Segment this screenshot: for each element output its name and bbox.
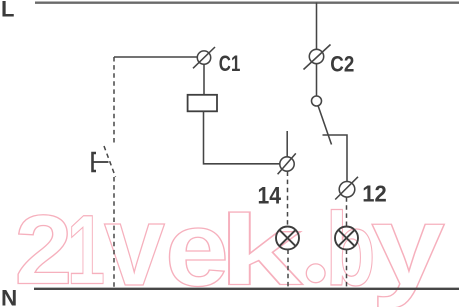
svg-text:N: N	[1, 285, 17, 307]
svg-text:12: 12	[362, 181, 387, 207]
terminal C1	[193, 47, 215, 68]
watermark 21vek.by	[15, 182, 446, 307]
wire dashed control branch lower	[113, 177, 115, 288]
wire relay coil down and right to terminal 14	[204, 111, 281, 164]
wire dashed control branch upper	[113, 57, 115, 145]
terminal C2	[304, 45, 331, 70]
contact stub above terminal 14	[286, 131, 288, 157]
lamp HL2	[335, 227, 358, 250]
svg-text:C2: C2	[330, 51, 354, 76]
terminal 12	[335, 177, 358, 200]
wire dashed lamp 2 to N bus	[346, 250, 348, 289]
wire dashed terminal 12 to lamp 2	[346, 197, 348, 226]
push-button actuator	[93, 153, 109, 171]
terminal 14	[278, 153, 296, 174]
svg-text:L: L	[1, 0, 14, 21]
relay coil K1	[188, 95, 217, 112]
wire dashed terminal 14 to lamp 1	[287, 172, 289, 227]
switch pivot circle	[312, 96, 322, 106]
push-button blade dashed	[104, 146, 116, 177]
lamp HL1	[276, 227, 299, 250]
wire terminal C1 to relay coil	[203, 64, 205, 95]
svg-text:14: 14	[258, 183, 282, 210]
wire horizontal to terminal C1	[114, 56, 198, 58]
wire terminal C2 to switch pivot	[316, 64, 318, 97]
wire from L bus down to terminal C2	[316, 3, 318, 50]
switch blade	[318, 106, 332, 145]
wire dashed lamp 1 to N bus	[287, 250, 289, 289]
svg-text:C1: C1	[219, 51, 241, 76]
N bus line	[34, 288, 459, 290]
L bus line	[35, 2, 459, 4]
wire bracket from blade to terminal 12	[323, 135, 348, 182]
